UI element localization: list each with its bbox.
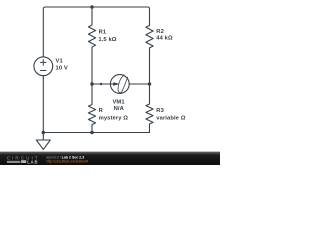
svg-text:http://circuitlab.com/c6rw4t: http://circuitlab.com/c6rw4t: [46, 159, 89, 163]
svg-text:R2: R2: [156, 29, 164, 35]
svg-text:variable Ω: variable Ω: [156, 115, 185, 121]
wire V1 bottom to ground node: [42, 76, 44, 133]
VM1 V glyph: [118, 75, 124, 93]
voltmeter VM1 circle: [110, 75, 129, 94]
logo block: [21, 160, 26, 163]
logo lines: [7, 161, 20, 162]
svg-text:mystery Ω: mystery Ω: [99, 115, 129, 121]
svg-text:V1: V1: [56, 59, 64, 65]
svg-text:R1: R1: [99, 29, 107, 35]
svg-text:N/A: N/A: [114, 106, 125, 112]
voltage source V1 circle: [34, 57, 53, 76]
resistor R3: [146, 84, 153, 133]
svg-text:LAB: LAB: [27, 159, 38, 164]
resistor R2: [146, 25, 153, 84]
junction node bottom R: [90, 131, 94, 135]
resistor R1: [88, 7, 95, 84]
V1 minus sign: [40, 70, 46, 72]
footer bar: [0, 152, 220, 165]
svg-text:R: R: [99, 108, 104, 114]
ground symbol: [36, 133, 50, 150]
VM1 arrow head: [113, 82, 120, 86]
junction node ground: [42, 131, 46, 135]
V1 plus sign: [40, 59, 46, 65]
wire bottom rail: [43, 132, 149, 134]
svg-text:10 V: 10 V: [56, 65, 68, 71]
svg-text:R3: R3: [156, 108, 164, 114]
junction node top (R1 top): [90, 5, 94, 9]
junction node R1 bottom / middle wire: [90, 82, 94, 86]
svg-text:44 kΩ: 44 kΩ: [156, 35, 173, 41]
VM1 arrow shaft: [101, 83, 114, 85]
junction node R2 bottom / middle wire: [148, 82, 152, 86]
wire middle right segment: [129, 83, 149, 85]
svg-text:1.5 kΩ: 1.5 kΩ: [98, 37, 116, 43]
svg-text:VM1: VM1: [112, 100, 125, 106]
VM1 arrow tail dot: [100, 83, 102, 85]
resistor R (mystery): [88, 84, 95, 133]
wire middle left segment: [92, 83, 110, 85]
wire top rail from V1 to R2: [43, 7, 149, 57]
